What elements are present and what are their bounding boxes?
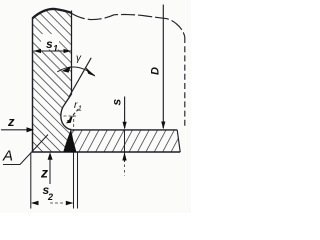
s2 left arrowhead (31, 201, 39, 205)
s2 left extension line (30, 153, 32, 209)
shell top edge (71, 129, 177, 131)
weld toe extension line (77, 153, 79, 209)
nozzle top break line (33, 9, 72, 18)
nozzle right edge (71, 11, 73, 95)
top dashed contour wavy horizontal (72, 14, 185, 38)
s1 right arrowhead (64, 49, 72, 53)
s1 left arrowhead (33, 49, 41, 53)
svg-text:s: s (46, 37, 53, 51)
nozzle plate hatched body (33, 9, 72, 152)
dimension s1 line (34, 50, 72, 52)
svg-text:A: A (2, 148, 13, 165)
z left leader line (1, 129, 28, 131)
dashed contour vertical right (184, 37, 186, 128)
gamma angle arc (57, 67, 95, 76)
s2 right arrowhead (66, 201, 74, 205)
dimension s arrow line down (124, 97, 126, 129)
gamma arc left arrowhead (62, 66, 71, 72)
r1 centre mark dashes vertical (73, 114, 75, 132)
gamma arc right arrowhead (85, 67, 95, 77)
s arrow line up from below (122, 152, 126, 160)
r1 arrowhead (66, 115, 73, 123)
r1 leader dashed line (68, 109, 79, 121)
s1 label text knockout (41, 34, 59, 50)
dimension D line (162, 5, 164, 129)
svg-text:z: z (7, 114, 15, 129)
bevel angle slant line (69, 58, 91, 97)
s lower dashes (124, 165, 126, 177)
s2 dimension dashes (50, 202, 64, 204)
svg-text:1: 1 (78, 104, 82, 113)
z left arrowhead (27, 127, 35, 132)
svg-text:s: s (110, 99, 124, 106)
z bottom arrowhead (48, 152, 53, 160)
weld groove curve r1 profile (61, 94, 72, 130)
svg-text:2: 2 (47, 192, 53, 202)
D arrowhead down (161, 122, 165, 130)
shell plate hatched body (71, 130, 180, 152)
svg-text:1: 1 (53, 44, 58, 54)
bottom edge of both plates (32, 151, 180, 153)
svg-text:z: z (40, 165, 48, 181)
nozzle left edge (32, 18, 34, 153)
A leader line (3, 135, 48, 165)
s arrowhead down (123, 122, 127, 130)
z bottom arrow line (49, 155, 51, 184)
svg-text:D: D (150, 67, 162, 75)
s2 right extension line (73, 153, 75, 209)
shell right break edge (177, 130, 180, 152)
weld fill black triangle (63, 129, 76, 152)
r1 centre mark dashes horizontal (64, 115, 77, 117)
